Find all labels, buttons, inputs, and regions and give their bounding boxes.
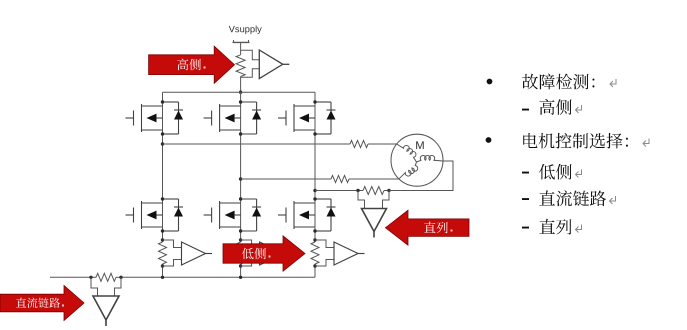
- label Vsupply: [229, 26, 235, 32]
- callout arrow low-side (di ce): [223, 236, 305, 271]
- node leg B / rail: [239, 276, 242, 279]
- list item: fault detection: [522, 74, 538, 90]
- current-sense shunt resistor, phase C leg: [311, 238, 334, 267]
- label M: [416, 141, 424, 149]
- wire leg A vertical: [162, 92, 164, 277]
- kelvin bracket in-line: [358, 191, 389, 209]
- label zhi lie (in-line) white: [424, 222, 436, 233]
- sense amplifier, phase B leg: [260, 242, 291, 265]
- high-side sense shunt resistor: [236, 55, 245, 77]
- list sub-item: low side: [522, 172, 529, 174]
- DC-link shunt resistor: [91, 273, 121, 281]
- label di ce (low side) white: [242, 248, 254, 260]
- node phase B: [239, 177, 242, 180]
- list sub-item: DC link: [522, 198, 529, 200]
- high-side MOSFET Q1 with body diode: [126, 100, 184, 135]
- list sub-item: high side: [522, 109, 529, 111]
- wire Vsupply to shunt: [240, 42, 242, 54]
- node phase C: [313, 189, 316, 192]
- label gao ce (high side) white: [177, 59, 188, 71]
- resistor phase A: [350, 140, 368, 147]
- in-line sense amplifier: [362, 209, 387, 238]
- bullet 2: [486, 137, 492, 143]
- sense amplifier, phase C leg: [334, 242, 365, 265]
- wire phase C to in-line shunt: [315, 190, 358, 192]
- low-side MOSFET Q5 with body diode: [204, 197, 262, 232]
- wire in-line shunt to motor return: [389, 161, 453, 191]
- Vsupply rail bar: [233, 40, 250, 42]
- motor winding phase C: [417, 155, 444, 162]
- low-side MOSFET Q6 with body diode: [278, 197, 336, 232]
- callout arrow high-side (gao ce): [149, 46, 235, 83]
- low-side MOSFET Q4 with body diode: [126, 197, 184, 232]
- wire shunt to top rail: [240, 77, 242, 93]
- list item: motor control selection: [523, 133, 537, 148]
- resistor phase B: [331, 175, 349, 182]
- high-side MOSFET Q2 with body diode: [204, 100, 262, 135]
- motor winding phase A: [397, 144, 443, 179]
- sense amplifier, phase A leg: [182, 242, 213, 265]
- wire bottom DC-link rail: [50, 276, 315, 278]
- list sub-item: in-line: [522, 227, 529, 229]
- high-side sense amplifier: [259, 50, 289, 79]
- label zhi liu lian lu (DC link) white: [16, 297, 26, 307]
- current-sense shunt resistor, phase B leg: [237, 238, 260, 267]
- wire phase A: [163, 143, 397, 145]
- node supply/top-rail junction: [239, 91, 242, 94]
- high-side MOSFET Q3 with body diode: [278, 100, 336, 135]
- node leg A / rail: [161, 276, 164, 279]
- wire phase B: [241, 178, 399, 180]
- DC-link sense amplifier: [93, 296, 119, 326]
- wire leg B vertical: [240, 92, 242, 277]
- wire top rail: [163, 91, 316, 93]
- bullet 1: [487, 79, 493, 85]
- wire leg C vertical: [314, 92, 316, 277]
- callout arrow in-line (zhi lie): [386, 210, 470, 245]
- callout arrow DC-link (zhi liu lian lu): [0, 286, 84, 321]
- kelvin bracket high-side: [241, 50, 260, 77]
- node phase A: [161, 142, 164, 145]
- current-sense shunt resistor, phase A leg: [159, 238, 182, 267]
- motor winding phase B: [399, 162, 418, 179]
- in-line shunt resistor: [358, 187, 389, 195]
- kelvin bracket DC-link: [91, 277, 121, 296]
- motor M (3-phase): [391, 134, 443, 186]
